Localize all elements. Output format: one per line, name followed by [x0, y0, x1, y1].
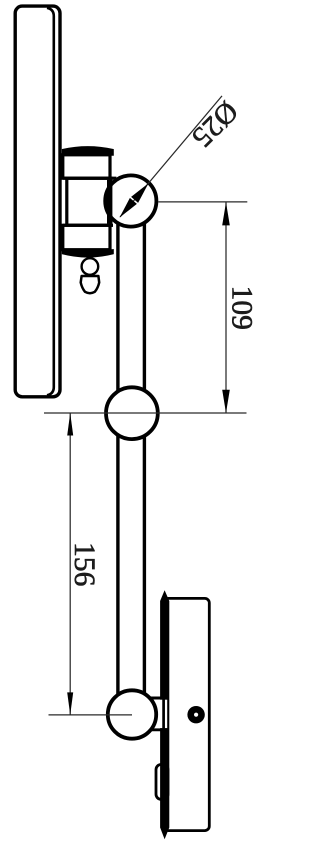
extension line middle	[44, 412, 247, 414]
dimension line 156	[69, 413, 71, 715]
arrow 109 up	[222, 202, 230, 225]
leader arrowhead lower	[120, 198, 137, 218]
knob circle	[82, 258, 99, 275]
bottom boss top edge	[146, 697, 167, 700]
plate face sliver	[160, 590, 169, 839]
extension line bottom	[49, 714, 133, 716]
top plate outer body	[15, 6, 60, 397]
bracket upper collar	[63, 155, 110, 178]
rail left line	[116, 222, 119, 700]
top slider circle	[105, 175, 156, 226]
bracket bottom cap	[62, 250, 113, 258]
arrow 156 down	[67, 692, 73, 715]
arrow 109 down	[222, 390, 230, 413]
bracket divider upper	[63, 177, 117, 180]
bracket lower collar	[63, 225, 110, 249]
top plate inner edge line	[47, 8, 54, 396]
bracket divider lower	[63, 224, 113, 227]
plate hole	[187, 706, 204, 723]
leader line	[120, 96, 222, 217]
bracket right edge over circle	[107, 180, 112, 224]
bottom slider circle	[108, 690, 156, 738]
clip bump	[156, 765, 168, 800]
bottom boss wipeout	[146, 700, 167, 728]
bottom boss bottom edge	[146, 728, 167, 731]
rail right line	[143, 222, 146, 700]
leader arrowhead upper	[131, 183, 148, 203]
arrow 156 up	[67, 413, 73, 436]
bracket middle body	[67, 178, 111, 225]
middle slider circle	[106, 387, 158, 439]
knob drop shape	[81, 276, 100, 293]
svg-text:109: 109	[225, 286, 257, 330]
extension line top	[158, 201, 247, 203]
bottom boss right edge	[162, 698, 165, 730]
dimension line 109	[225, 202, 227, 413]
bottom plate body	[164, 598, 209, 830]
bracket top cap	[62, 147, 113, 156]
svg-text:156: 156	[68, 542, 100, 586]
